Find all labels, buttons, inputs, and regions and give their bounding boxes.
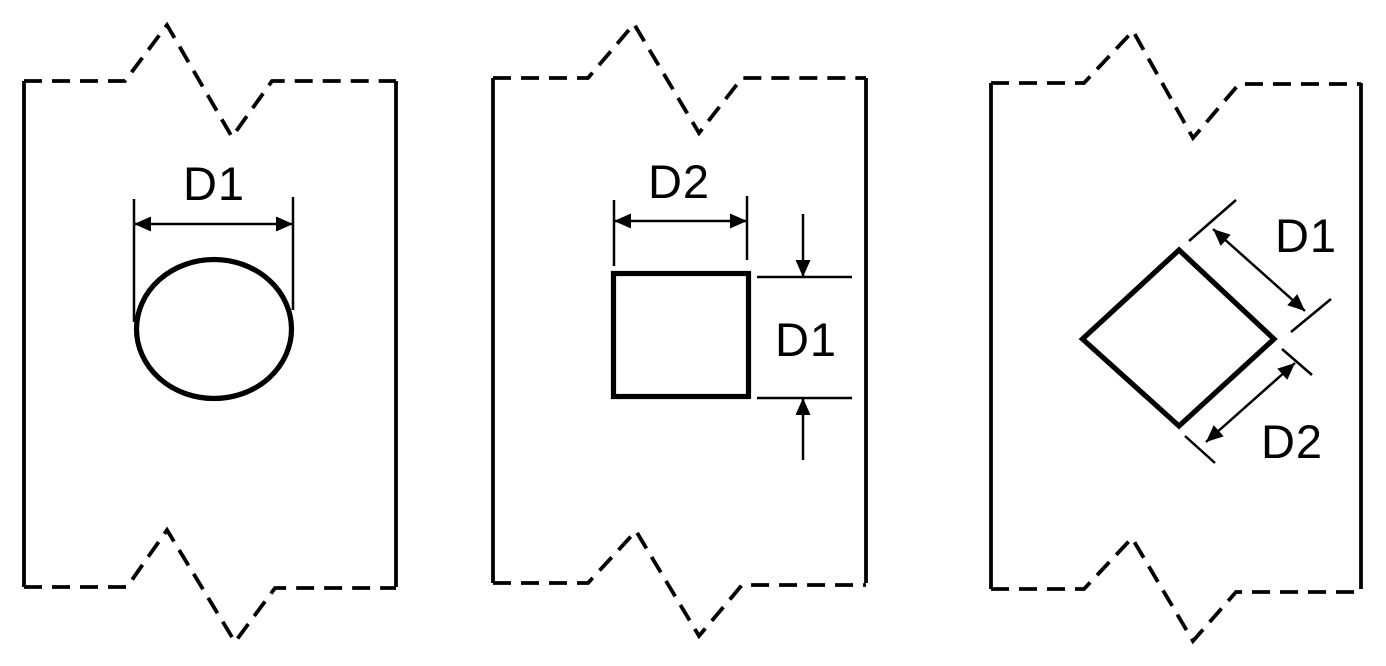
- plate bottom edge with break zigzag (dashed): [493, 531, 866, 636]
- plate top edge with break zigzag (dashed): [493, 24, 866, 133]
- D1 extension line at top vertex: [1189, 200, 1236, 241]
- D2 extension line at bottom vertex: [1185, 436, 1215, 463]
- dimension line D1 (diagonal, arrows outward): [1213, 229, 1305, 311]
- dimension line D1 (horizontal, arrows outward): [134, 223, 293, 226]
- circular hole D1: [137, 260, 292, 399]
- plate left edge (solid): [22, 81, 26, 587]
- D2 extension line at right vertex: [1282, 349, 1312, 375]
- plate right edge (solid): [1359, 83, 1363, 589]
- plate left edge (solid): [989, 83, 993, 589]
- extension line right (D2): [746, 196, 749, 260]
- square hole: [614, 274, 749, 397]
- top arrow line (down arrow): [802, 214, 805, 277]
- plate top edge with break zigzag (dashed): [24, 25, 396, 137]
- svg-text:D2: D2: [648, 155, 710, 208]
- plate left edge (solid): [491, 78, 495, 583]
- dimension line D2 (diagonal, arrows outward): [1206, 363, 1295, 442]
- bottom arrow line (up arrow): [802, 398, 805, 460]
- svg-text:D1: D1: [1275, 209, 1337, 262]
- diamond hole (rotated square): [1083, 250, 1275, 426]
- extension line left (D2): [613, 200, 616, 266]
- plate top edge with break zigzag (dashed): [991, 31, 1361, 138]
- plate right edge (solid): [864, 78, 868, 583]
- svg-text:D1: D1: [775, 313, 837, 366]
- tick line bottom (D1): [757, 397, 852, 400]
- extension line left: [133, 199, 136, 322]
- dimension line D2 (horizontal, arrows outward): [614, 220, 747, 223]
- svg-text:D2: D2: [1261, 415, 1323, 468]
- D1 extension line at right vertex: [1291, 299, 1331, 332]
- plate right edge (solid): [394, 81, 398, 587]
- svg-text:D1: D1: [183, 157, 245, 210]
- extension line right: [292, 197, 295, 310]
- plate bottom edge with break zigzag (dashed): [24, 530, 396, 642]
- plate bottom edge with break zigzag (dashed): [991, 538, 1361, 641]
- tick line top (D1): [757, 276, 852, 279]
